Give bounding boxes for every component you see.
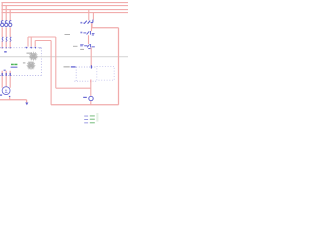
aux contact KM1 label [80,44,83,46]
ghost component body outline [97,66,114,80]
start button S2 pin label [80,32,82,34]
ghost component pin preview top [76,66,96,68]
coil KM1 [89,96,93,100]
legend row labels blue [84,116,88,124]
thermal relay F1 terminal marker 2 [30,47,32,49]
wire B to coil [56,87,91,89]
gear label tick b [23,62,26,63]
gear icon 2 [27,61,36,70]
control line segment 3 [90,48,92,67]
contactor KM1 main contact 2 [6,37,8,42]
thermal relay F1 terminal marker 1 [25,47,27,49]
aux contact KM1 right label [92,45,95,48]
gray text under aux contact [80,49,84,50]
bus N rail [1,12,128,14]
ghost component pin preview bottom [74,80,96,82]
overload F1 pin ticks [2,70,10,76]
wire B tee stub down [30,37,32,47]
gear icon 1 [29,52,38,61]
wire phase V drop [5,6,7,87]
wire N branch to right [92,27,119,29]
ghost component pin preview left [75,67,77,81]
wire label bottom left blue [0,95,2,96]
selection marquee top edge [0,47,41,49]
wire label gray text 1 [65,34,71,35]
earth wire stub [9,97,11,100]
wire A riser [50,41,52,105]
motor M1 3~ mark [5,91,8,94]
thermal relay F1 terminal tick 4 [39,47,41,48]
terminal arrow X1 [25,103,28,106]
gear label tick a [27,53,32,54]
wire B riser [55,37,57,88]
ghost pin tick top [90,65,92,68]
wire right riser [118,28,120,105]
motor M1 [2,87,10,95]
wire B horizontal (thermal NC branch) [28,36,56,38]
control riser from L3 [88,10,90,21]
bus L3 rail [1,9,128,11]
start button S2 contact [83,31,90,35]
wire phase W drop [9,10,11,88]
coil KM1 label [83,97,87,98]
contactor KM1 main contact 1 [2,37,4,42]
control line segment 2 [88,35,90,44]
stop button S1 pin label [80,22,82,24]
control line segment 1 [91,23,93,31]
sheet frame line [0,56,128,58]
earth wire stub dot [9,96,10,97]
breaker Q1 pole 2 [5,21,8,27]
contactor KM1 main contact 3 [10,37,12,42]
thermal relay F1 label [4,51,7,52]
selection marquee bottom edge [0,75,41,77]
coil KM1 bottom stub [90,101,92,105]
thermal relay F1 terminal marker 3 [34,47,36,49]
phase connection dots on marquee [2,47,11,48]
control riser from N [92,13,93,28]
wire phase U drop [1,3,3,88]
start button S2 label [92,33,95,35]
gray text 2 rows left of ghost [64,66,70,67]
selection marquee right edge [40,48,42,76]
wire B stub down [27,37,29,47]
control line segment 4 [90,81,92,96]
svg-text:M: M [5,88,8,92]
wire name label blue near ghost [71,66,76,67]
gray text mid control [73,46,78,47]
bus L1 rail [1,2,128,4]
wire A second stub down [34,41,36,47]
wire bottom N [51,104,118,106]
aux contact KM1 [84,44,90,49]
overload F1 label blue [11,67,18,68]
earth wire bottom left [0,100,27,103]
legend row values green [90,115,95,123]
legend green side bar [96,113,98,122]
overload F1 label green [11,64,17,65]
stop button S1 contact [84,20,94,24]
bus L2 rail [1,5,128,7]
breaker Q1 pole 1 [1,21,4,27]
wire A horizontal [35,40,51,42]
ghost pin tick bottom [90,80,92,83]
breaker Q1 pole 3 [9,21,12,27]
